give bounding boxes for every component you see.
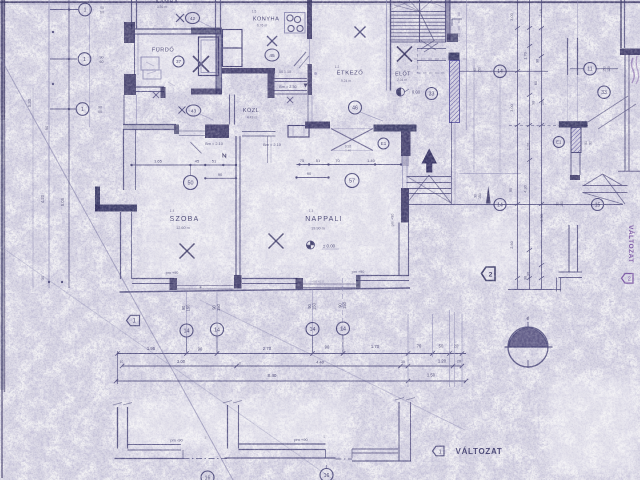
foundation left fragment outer line [115,458,184,460]
pentagon tag 2 purple [622,274,634,284]
window jamb NAPPALI bottom [296,278,304,290]
wall NAPPALI top left segment [305,122,330,129]
svg-text:90: 90 [218,172,223,177]
svg-text:150: 150 [478,67,482,73]
svg-text:57: 57 [349,178,355,184]
wc [143,70,161,79]
leader row 2 with circled tag 1 [50,58,77,60]
svg-text:NAPPALI: NAPPALI [305,216,342,223]
eaves dashed line vertical [458,12,460,41]
svg-text:14: 14 [340,326,346,332]
right dim column line 1 [517,0,519,290]
svg-text:1.70: 1.70 [523,51,528,59]
door pier between SZOBA and NAPPALI doors [205,125,229,139]
svg-text:8.40: 8.40 [268,373,277,378]
svg-text:1.50: 1.50 [427,373,436,378]
ramp hatch triangles [584,174,603,186]
circled tag 50 [184,176,198,190]
svg-text:5.30: 5.30 [27,98,32,107]
stair winder fan lines [394,5,420,12]
circled tag 33 right [598,86,610,98]
X mark in ETKEZO [355,27,366,38]
svg-text:90: 90 [198,347,203,352]
svg-text:2.40: 2.40 [345,149,351,153]
left margin vertical dim line A [48,0,50,288]
svg-text:KÖZL: KÖZL [243,107,260,114]
X mark below stairs [397,47,412,62]
cooktop circles [285,13,306,34]
short line y=173 [460,173,522,175]
door jamb FURDO [161,87,166,98]
circled tag 33 at entry [426,88,438,100]
door lintel rect [288,126,309,138]
right dim column line 2 [529,0,531,290]
svg-text:1: 1 [81,107,84,113]
svg-text:4.30: 4.30 [523,184,528,192]
stair center divider [419,0,421,42]
page top border line [0,1,640,3]
svg-text:pm +90: pm +90 [294,437,308,442]
svg-text:1.2: 1.2 [335,65,340,69]
foundation wall left fragment horizontal [128,444,182,446]
door swing SZOBA [191,142,202,153]
door opening SZOBA [179,130,205,132]
entry steps triangle mark [407,175,429,203]
svg-text:± 0.00: ± 0.00 [323,244,336,249]
pass-through door lines KONYHA-ETKEZO [275,78,308,80]
svg-text:16: 16 [324,473,330,479]
svg-text:150: 150 [478,193,482,199]
wall SZOBA top end jamb [174,125,179,135]
left wall below pier P2 [123,95,125,125]
wall KOZL left [229,95,231,125]
door swing X FURDO [153,92,159,98]
svg-text:14: 14 [214,327,220,333]
svg-text:33: 33 [429,91,435,97]
lighter clean patches over room interiors [125,6,638,473]
svg-text:2: 2 [489,271,493,278]
right dim ticks [515,26,520,30]
wall SZOBA left upper [123,130,125,191]
left margin vertical dim line C [32,88,34,292]
svg-text:150: 150 [560,201,564,207]
left wall between piers [134,34,136,75]
right edge line y=171 [618,170,640,172]
svg-text:1: 1 [83,57,86,63]
washbasin [141,57,159,70]
crease diagonal D2 [200,300,465,430]
terrace wall lines below [451,122,453,204]
svg-text:11: 11 [587,67,592,73]
label 1 VALTOZAT bottom [433,446,445,456]
svg-text:90: 90 [325,345,330,350]
variant lower wall foot [559,271,583,273]
svg-text:é: é [527,316,530,322]
svg-text:60: 60 [100,60,104,64]
wall FURDO right [216,34,222,94]
wall SZOBA left lower [120,212,122,279]
svg-text:50: 50 [584,141,588,145]
svg-text:KONYHA: KONYHA [253,17,280,23]
window NAPPALI bottom thin lines [303,283,356,285]
kitchen sink unit [223,30,243,49]
svg-text:14: 14 [310,327,316,333]
dim verticals entry zone [407,314,409,387]
svg-text:1.40: 1.40 [367,158,376,163]
svg-text:10: 10 [120,360,124,364]
svg-text:1.70: 1.70 [371,344,380,349]
dash-dot opening left [184,458,229,460]
structural opening X marks NAPPALI/ETKEZO [331,129,373,151]
bathtub [199,37,219,76]
left margin vertical dim line B [68,0,70,288]
variant T pier stem hatched [571,128,581,153]
pentagon tag 2 mid sheet [482,267,496,281]
window SZOBA bottom thin lines [177,285,234,287]
svg-text:14: 14 [184,328,190,334]
circled tag E1 right [553,137,564,148]
leader row 3 with circled tag 1 [50,108,76,110]
wall pier T bar NAPPALI top right [374,125,417,132]
svg-text:SZOBA: SZOBA [170,216,200,223]
svg-text:Bm = 2.10: Bm = 2.10 [205,141,224,146]
wall KONYHA right upper [307,0,312,39]
dim left end connector [117,351,119,384]
svg-text:4.40: 4.40 [316,360,325,365]
wall NAPPALI bottom segment [242,278,298,280]
svg-text:VÁLTOZAT: VÁLTOZAT [627,225,636,263]
dimension row 2 [122,365,462,367]
svg-text:43: 43 [191,109,197,115]
stair dashed ceiling break [417,72,446,74]
spike level mark [486,186,491,204]
blacked window L mark on SZOBA left wall [95,187,100,212]
circled tag 16 b [320,469,333,482]
svg-text:75: 75 [300,158,305,163]
svg-text:90: 90 [44,125,49,130]
svg-text:ÉTKEZŐ: ÉTKEZŐ [337,70,364,77]
wall KONYHA right lower [308,64,313,95]
NAPPALI interior dim line 1 [297,164,402,166]
svg-text:14: 14 [497,202,503,208]
right dim column line 3 [541,0,543,290]
variant T stem lower [570,153,572,176]
right dim column cap line [508,289,561,291]
stair right wall [446,0,451,42]
pentagon tag 1 [127,315,140,325]
eaves dashed line horizontal [414,58,468,60]
svg-text:3.00: 3.00 [509,103,514,111]
svg-text:2: 2 [628,277,631,283]
svg-text:51: 51 [212,159,217,164]
diagonal slashes right of tag 45 [294,52,306,66]
svg-text:150: 150 [186,304,191,312]
foundation wall right fragment horizontal [239,443,326,445]
eave diagonals top right [588,96,628,122]
svg-text:150: 150 [312,302,317,310]
wall SZOBA top [123,124,176,126]
svg-text:1.65: 1.65 [154,159,163,164]
level mark 0.00 at ELOT [397,88,401,96]
svg-text:1.5: 1.5 [252,10,257,14]
svg-text:150: 150 [342,301,347,309]
svg-text:150: 150 [216,303,221,311]
svg-text:1.95: 1.95 [147,346,156,351]
svg-text:30: 30 [473,194,477,198]
window jamb SZOBA bottom left [170,278,178,290]
circled tag 14 on line [494,199,506,211]
door swing N mark [223,154,226,158]
stair landing break mark [421,40,435,49]
svg-text:45: 45 [269,53,275,59]
svg-text:46: 46 [352,105,358,111]
wall NAPPALI right with window segments [401,156,409,166]
svg-text:3.00: 3.00 [509,12,514,20]
svg-text:50: 50 [439,344,444,349]
wall FURDO bottom right segment [191,89,222,95]
X mark in NAPPALI [269,234,284,249]
door leaf line KOZL door [267,136,269,163]
purple scribbles right edge [632,58,635,83]
wall FURDO bottom left segment [136,86,164,88]
top dim line with circled 14 [459,70,548,72]
dimension row 3 [116,380,466,382]
svg-text:30: 30 [589,141,593,145]
door swing X near KOZL [287,97,293,103]
svg-text:14: 14 [497,69,503,75]
svg-text:51: 51 [316,158,321,163]
foundation wall right fragment vertical [227,405,229,449]
variant lower wall stem [568,225,570,272]
wall NAPPALI bottom right corner [356,275,409,277]
crease diagonal D1 [0,57,233,480]
window pier P1 on left wall [124,22,135,43]
svg-text:30: 30 [401,360,405,364]
porch edge thin verticals [466,0,468,130]
wall SZOBA bottom segment [132,278,174,280]
svg-text:3.56 m: 3.56 m [157,5,168,9]
circled tag 46 [349,101,362,114]
svg-text:E1: E1 [556,140,562,145]
svg-text:9.24 m: 9.24 m [341,79,352,83]
svg-text:pm +90: pm +90 [391,214,395,227]
benchmark level mark NAPPALI [311,241,315,245]
svg-text:2.04 m: 2.04 m [397,78,407,82]
svg-text:2.70: 2.70 [263,346,272,351]
X mark in FURDO [193,56,209,72]
X mark in KONYHA [267,36,277,46]
svg-text:4.20: 4.20 [40,194,45,203]
dash-dot opening right [336,458,353,460]
small corner mark top right of stairs [451,19,453,26]
wall KAMRA/KONYHA divider [215,0,217,34]
svg-text:2.48: 2.48 [538,9,543,17]
svg-text:3.00: 3.00 [177,359,186,364]
right edge wall lower [624,55,626,171]
svg-text:90: 90 [473,68,477,72]
circled tag 43 [186,105,200,116]
stair treads upper flight [391,11,446,13]
circled tag 45 [265,49,279,61]
circled tag 15 on line [592,199,604,211]
X mark in SZOBA [180,244,195,259]
svg-text:90: 90 [307,171,312,176]
svg-text:90: 90 [100,56,104,60]
circled tag 57 [345,174,359,188]
svg-text:E1: E1 [381,141,387,146]
svg-text:19.90 m: 19.90 m [311,227,325,231]
foundation wall left fragment vertical [117,407,119,449]
long dim line right of entry [408,204,623,206]
door opening KOZL to NAPPALI [242,131,276,133]
circled tag 11 [584,62,596,74]
circled tag 37 [173,56,184,67]
variant wall segment upper [567,38,569,75]
right edge wall upper [620,0,622,48]
dashed tick row [509,125,588,127]
svg-text:pm +90: pm +90 [352,270,365,274]
exterior wall top-left vertical [131,0,133,29]
stair walk line diagonal [420,12,435,41]
svg-text:37: 37 [176,59,182,65]
svg-text:50: 50 [188,180,194,186]
foundation right fragment outer line [225,457,336,459]
svg-text:30: 30 [41,276,45,280]
circled tag 16 a [201,471,214,484]
window KONYHA right [309,39,311,64]
svg-text:6.76 m: 6.76 m [257,24,268,28]
svg-text:5.05: 5.05 [60,197,65,206]
svg-text:1.20: 1.20 [438,359,447,364]
dimension row 1 [118,353,467,355]
variant T pier bar [559,121,588,127]
stair left wall [386,0,388,91]
window centerlines to dim tags [186,292,188,352]
wall KOZL/ETKEZO thin [307,95,309,122]
left margin vertical dim line D [89,0,91,127]
SZOBA interior dim line 1 [132,164,237,166]
terrace pier dark bar [449,53,460,61]
svg-text:1.3: 1.3 [309,209,314,213]
svg-text:FÜRDŐ: FÜRDŐ [152,47,175,54]
svg-text:90: 90 [509,188,513,192]
svg-text:42: 42 [190,16,196,22]
variant wall vertical guide [577,0,579,121]
leader row 1 with circled tag 1 [50,9,78,11]
svg-text:1.20: 1.20 [526,142,531,150]
svg-text:485 41.0: 485 41.0 [312,280,324,284]
left margin tick dots [48,281,50,283]
svg-text:15: 15 [595,202,601,208]
svg-text:3.50: 3.50 [539,213,544,221]
door jamb KOZL/KONYHA [268,74,275,99]
svg-text:16: 16 [205,475,211,480]
right edge wall bar [620,49,640,56]
svg-text:30: 30 [555,202,559,206]
circled tag E1 [378,138,389,149]
svg-text:45: 45 [195,159,200,164]
svg-text:Bm = 2.50: Bm = 2.50 [279,85,296,89]
SZOBA interior dim line 2 [205,177,236,179]
wall divider SZOBA/NAPPALI [235,136,237,275]
X mark and circled tag 42 in KAMRA [176,14,184,22]
svg-text:1.4: 1.4 [170,209,175,213]
svg-text:1: 1 [439,449,442,455]
svg-text:4.43 m: 4.43 m [247,116,258,120]
wall pier T stem [401,132,411,157]
svg-text:60: 60 [100,11,104,15]
foundation right return wall vertical [398,402,400,461]
crease diagonal D3 [0,246,334,480]
page left border band [1,0,3,478]
svg-text:12.60 m: 12.60 m [176,226,190,230]
window pier P2 on left wall [124,74,136,95]
svg-text:0.00: 0.00 [412,90,421,95]
wall KOZL top (KONYHA bottom) [222,68,275,74]
svg-text:20: 20 [457,360,461,364]
north symbol [508,327,548,367]
svg-text:70: 70 [335,158,340,163]
svg-text:ELŐT: ELŐT [395,71,411,78]
svg-text:1: 1 [84,7,87,13]
svg-text:pm +90: pm +90 [166,271,179,275]
NAPPALI interior dim line 2 [297,177,329,179]
svg-text:90: 90 [100,6,104,10]
entry steps lines [407,176,452,178]
stair lower landing lines [391,41,446,43]
svg-text:90: 90 [98,106,102,110]
entry arrow [422,149,438,173]
svg-text:50 1.10: 50 1.10 [279,70,291,74]
svg-text:60: 60 [98,110,102,114]
svg-text:pm -90: pm -90 [170,438,183,443]
svg-text:6: 6 [239,362,241,366]
svg-text:33: 33 [601,90,607,96]
svg-text:Bm = 2.10: Bm = 2.10 [263,142,282,147]
stair corner bar [447,34,458,43]
divider bottom pier [234,275,242,289]
wall KAMRA bottom / FURDO top [134,28,221,30]
svg-text:70: 70 [417,344,422,349]
outer wall bottom line [120,288,411,292]
foundation wall piece far right [352,448,398,450]
svg-text:VÁLTOZAT: VÁLTOZAT [456,447,503,456]
svg-text:2.60: 2.60 [509,240,514,248]
terrace hatched wall bar [450,61,460,123]
fixture marks FURDO [146,62,154,66]
